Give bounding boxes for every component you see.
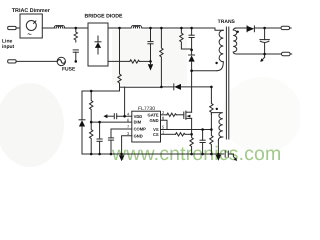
- ground arrow (primary GND): [119, 155, 124, 161]
- terminal J1 line input live: [8, 26, 16, 29]
- wire R3 to node DC return: [140, 60, 151, 62]
- resistor R5 (snubber): [180, 28, 192, 49]
- junction rail aux return: [217, 153, 220, 156]
- svg-text:FL7730: FL7730: [138, 106, 155, 112]
- junction rail R7: [90, 153, 93, 156]
- junction output minus node: [263, 53, 266, 56]
- resistor R11 (VS divider lower): [210, 130, 213, 153]
- polarity dot primary: [215, 62, 217, 64]
- wire J2 to fuse to bridge (bottom AC line): [16, 60, 56, 62]
- junction drain node: [190, 69, 193, 72]
- svg-text:FUSE: FUSE: [62, 67, 76, 73]
- junction HV rail R4: [160, 27, 163, 30]
- wire DIM divider top: [82, 90, 120, 92]
- wire node A branch down to VDD pin: [124, 87, 126, 116]
- capacitor C3 (snubber): [189, 28, 194, 50]
- wire bridge plus output to L2 (HV rail): [108, 27, 131, 29]
- capacitor C5 (DIM filter): [97, 122, 102, 154]
- wire L1 to bridge (top AC line): [64, 27, 88, 29]
- capacitor C6 (VDD series): [114, 114, 116, 119]
- terminal J2 line input neutral: [8, 60, 16, 63]
- capacitor C2 (bulk, HV rail): [148, 28, 153, 61]
- junction rail C7: [110, 153, 113, 156]
- wire COMP pin 7 to C7: [111, 129, 132, 138]
- junction HV rail R2: [118, 27, 121, 30]
- wire aux bottom to ground rail: [217, 140, 219, 154]
- junction rail C5: [98, 153, 101, 156]
- wire D2 to output plus terminal: [254, 27, 281, 29]
- transformer T1 auxiliary winding: [211, 113, 222, 140]
- junction line damper top: [75, 27, 78, 30]
- secondary ground arrow: [260, 54, 264, 62]
- wire D3 anode to aux node: [181, 86, 211, 88]
- polarity dot auxiliary: [216, 108, 218, 110]
- capacitor C9 (Y-cap): [225, 151, 233, 157]
- wire CS pin 1 to R9: [161, 133, 176, 135]
- svg-text:VDD: VDD: [134, 114, 143, 119]
- label Line input: [2, 39, 15, 51]
- wire Q1 source down to CS node: [191, 118, 193, 134]
- wire HV rail L2 to transformer: [143, 27, 216, 29]
- secondary ground arrow (Y-cap side): [233, 154, 237, 161]
- transistor Q1 (MOSFET): [184, 111, 192, 119]
- inductor L1: [54, 26, 65, 29]
- junction VDD pin node: [123, 115, 126, 118]
- junction VS row C8: [201, 128, 204, 131]
- TRIAC dimmer SW1: [20, 14, 42, 38]
- wire GATE pin 2 to R8: [161, 114, 167, 116]
- resistor R4 (HV rail to VDD diode node): [160, 28, 163, 87]
- junction R4 to D3: [160, 86, 163, 89]
- svg-text:DIM: DIM: [134, 120, 142, 125]
- resistor R12 (VS divider upper, aux node): [210, 87, 213, 114]
- wire C6 to VDD pin 4: [117, 115, 132, 117]
- wire VS pin 5 row: [161, 129, 212, 131]
- wire secondary top to D2: [235, 27, 247, 29]
- junction HV rail C2: [149, 27, 152, 30]
- wire R9 to CS node: [185, 133, 192, 135]
- diode D2 (output rectifier): [247, 26, 254, 32]
- wire Q1 drain up to primary bottom: [191, 71, 193, 113]
- wire C1 to bottom AC line: [75, 52, 77, 61]
- resistor R8 (gate): [167, 113, 177, 116]
- resistor R1 (line damper): [74, 28, 77, 42]
- junction snubber RC to D1: [190, 49, 193, 52]
- wire C7 to ground rail: [110, 140, 112, 154]
- junction rail R11: [210, 153, 213, 156]
- transformer T1 secondary winding: [233, 28, 237, 54]
- svg-text:TRIAC Dimmer: TRIAC Dimmer: [12, 8, 51, 14]
- wire DIM row to pin 6: [91, 121, 132, 123]
- wire dimmer to L1: [42, 27, 55, 29]
- junction CS node: [190, 133, 193, 136]
- junction rail GND pin: [120, 153, 123, 156]
- junction rail R10: [190, 153, 193, 156]
- junction HV rail R5: [180, 27, 183, 30]
- wire J1 to dimmer: [16, 27, 20, 29]
- diode D4 (bleeder): [79, 91, 85, 154]
- diode D1 (snubber): [189, 50, 195, 71]
- svg-text:GND: GND: [149, 118, 158, 123]
- wire GND pin 8 to VS row: [161, 120, 168, 129]
- resistor R6 (DIM divider upper): [89, 91, 92, 122]
- inductor L2 (filter): [131, 26, 141, 29]
- junction HV rail C3: [190, 27, 193, 30]
- junction DIM divider top: [90, 90, 93, 93]
- wire R8 to Q1 gate: [176, 114, 184, 116]
- wire node A horizontal (R2 bottom to D3): [120, 86, 175, 88]
- svg-text:BRIDGE DIODE: BRIDGE DIODE: [84, 14, 123, 20]
- terminal J4 output minus: [282, 52, 292, 55]
- junction DIM row R6 R7: [90, 121, 93, 124]
- wire GND pin 3 to ground rail: [122, 136, 132, 154]
- resistor R2 (startup, from HV rail): [118, 28, 121, 91]
- capacitor C4 (output electrolytic): [260, 28, 269, 54]
- junction DIM row C5: [98, 121, 101, 124]
- resistor R10 (current sense): [190, 134, 193, 153]
- ground arrow (aux return): [216, 155, 221, 161]
- wire ground rail: [82, 153, 224, 155]
- ground arrow (DC return) under C2: [148, 61, 153, 70]
- op IC U1 FL7730 box: [132, 111, 161, 142]
- bridge rectifier BD1 diode symbol: [95, 36, 101, 54]
- terminal J3 output plus: [281, 26, 291, 29]
- junction rail C8: [201, 153, 204, 156]
- transformer T1 core: [226, 27, 228, 139]
- junction aux node: [210, 86, 213, 89]
- junction VS row R11: [210, 128, 213, 131]
- transformer T1 primary winding: [215, 28, 223, 62]
- resistor R3 (bridge return damper): [130, 60, 140, 63]
- resistor R7 (DIM divider lower): [89, 122, 92, 153]
- junction output plus node: [263, 27, 266, 30]
- capacitor C7 (COMP): [108, 138, 113, 140]
- polarity dot secondary: [237, 31, 239, 33]
- bridge rectifier BD1 box: [88, 23, 108, 66]
- svg-text:GATE: GATE: [148, 112, 159, 117]
- capacitor C8 (VS filter): [200, 130, 205, 155]
- wire bridge minus output: [108, 60, 130, 62]
- svg-text:input: input: [2, 44, 15, 50]
- wire secondary bottom to output minus terminal: [236, 53, 282, 55]
- diode D3 (VDD supply from aux): [174, 84, 181, 90]
- junction DC return node: [149, 60, 152, 63]
- fuse F1: [57, 57, 65, 65]
- arrow to VDD net (off-page): [103, 114, 113, 118]
- wire drain node to primary bottom: [192, 62, 224, 71]
- wire aux node to VS row: [210, 114, 212, 130]
- svg-text:COMP: COMP: [134, 127, 147, 132]
- svg-text:TRANS: TRANS: [218, 19, 236, 25]
- svg-text:GND: GND: [134, 133, 143, 138]
- svg-text:CS: CS: [153, 132, 159, 137]
- junction line damper bottom: [75, 60, 78, 63]
- resistor R9 (CS filter): [176, 133, 186, 136]
- capacitor C1 (line damper): [73, 50, 78, 52]
